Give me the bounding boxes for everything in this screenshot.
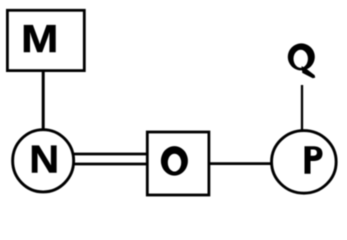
svg-text:N: N bbox=[29, 138, 59, 182]
wire Q-P bbox=[301, 85, 303, 130]
box O bbox=[147, 132, 209, 195]
wire M-N bbox=[42, 70, 45, 130]
wire O-P bbox=[209, 162, 272, 165]
double wire N-O upper bbox=[73, 153, 147, 156]
double wire N-O lower bbox=[73, 163, 147, 166]
label Q ring bbox=[288, 43, 315, 70]
label O bbox=[161, 146, 188, 176]
node P (circle) bbox=[272, 131, 337, 194]
box M bbox=[7, 10, 84, 70]
svg-text:M: M bbox=[21, 17, 58, 60]
label P bbox=[305, 146, 323, 174]
node N (circle) bbox=[13, 130, 74, 192]
label Q tail bbox=[302, 66, 316, 78]
